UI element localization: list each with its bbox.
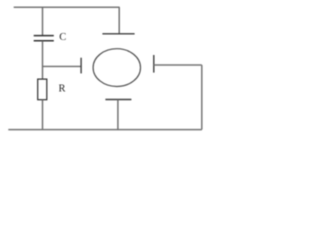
wire right rail — [201, 65, 203, 130]
capacitor C — [34, 36, 54, 41]
tube envelope — [93, 49, 140, 87]
wire bottom plate stem — [117, 100, 119, 130]
svg-text:C: C — [59, 32, 66, 43]
top electrode plate — [102, 33, 134, 35]
wire left rail upper — [42, 7, 44, 35]
svg-text:R: R — [59, 83, 66, 94]
wire top rail — [14, 6, 120, 8]
wire top-right drop to plate — [118, 7, 120, 33]
wire grid branch — [43, 65, 81, 67]
left electrode plate — [80, 58, 82, 74]
wire left rail lower — [42, 100, 44, 130]
bottom electrode plate — [105, 99, 131, 101]
wire bottom rail — [8, 129, 202, 131]
resistor R — [38, 79, 47, 100]
wire right branch — [154, 64, 202, 66]
right electrode plate — [153, 55, 155, 73]
wire left rail mid — [42, 41, 44, 79]
